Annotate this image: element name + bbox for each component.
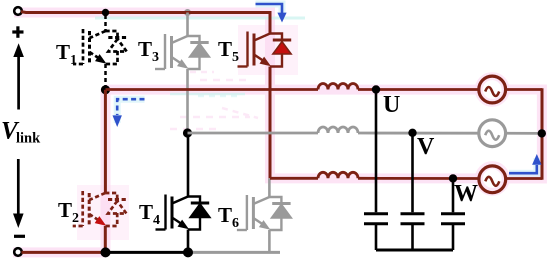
down arrow: [17, 159, 20, 215]
capacitor U: [364, 90, 388, 251]
node: bus star point: [538, 129, 546, 137]
capacitor V: [401, 133, 425, 250]
transistor T6 (gray IGBT): [237, 195, 291, 230]
wire: T3 collector lead (gray): [186, 13, 189, 37]
blue arrow top (current into T5): [256, 4, 287, 23]
glow around source U: [479, 76, 506, 103]
node: T4 at bottom rail: [183, 247, 193, 257]
DC+ terminal: [14, 7, 22, 15]
wire: T1 emitter lead (dashed): [104, 64, 107, 86]
AC source V: [479, 120, 506, 147]
wire: V phase line left segment: [188, 132, 319, 135]
wire: T1 collector lead (dashed): [104, 15, 107, 31]
capacitor common rail: [376, 249, 453, 252]
wire: T5 emitter down leg3 (maroon): [269, 67, 272, 179]
transistor T2 (dashed dark-red IGBT): [73, 191, 127, 226]
svg-text:T2: T2: [58, 198, 79, 226]
blue arrow bottom right (W current out): [509, 154, 542, 173]
svg-text:T6: T6: [218, 203, 239, 231]
transistor T4 (black IGBT): [156, 195, 210, 230]
transistor T1 (dashed black IGBT): [73, 29, 127, 64]
svg-text:V: V: [417, 134, 435, 160]
wire: T2 emitter to bottom rail (maroon): [104, 226, 107, 252]
top DC rail: [21, 12, 270, 34]
node above T3 (gray junction dot): [184, 9, 191, 16]
node above T1: [102, 9, 109, 16]
wire: T3 emitter to leg2 midpoint (gray): [186, 69, 189, 133]
AC source W: [479, 166, 506, 193]
inductor V: [318, 127, 358, 133]
minus sign: [14, 235, 25, 238]
inductor U: [318, 84, 358, 90]
svg-text:W: W: [454, 181, 478, 207]
wire: midpoint to T2 (maroon): [104, 90, 107, 193]
glow box around T5: [238, 25, 298, 75]
wire: leg2 midpoint to T4 (black): [187, 133, 190, 197]
svg-text:T1: T1: [56, 40, 77, 68]
up arrow: [17, 54, 20, 110]
wire: U phase line left segment: [106, 88, 319, 91]
bottom rail maroon segment: [22, 251, 106, 254]
wire: T6 emitter to bottom rail: [268, 230, 271, 252]
wire: T6 collector lead (gray): [268, 178, 271, 197]
wire: source V to bus (gray): [506, 132, 542, 135]
node: leg2 midpoint: [183, 128, 192, 137]
wire: U phase line right segment: [358, 88, 479, 91]
inductor W: [318, 172, 358, 178]
svg-text:T5: T5: [218, 37, 239, 65]
plus sign: [12, 26, 23, 38]
glow box around T2: [77, 185, 129, 240]
wire: source U to bus: [506, 88, 542, 91]
glow around source W: [479, 165, 506, 192]
artifact dashes: [170, 72, 258, 129]
capacitor W: [441, 178, 465, 250]
wire: source W to bus: [506, 177, 542, 180]
wire: W phase line left segment: [270, 177, 318, 180]
wire: V phase line right segment: [358, 132, 479, 135]
blue dashed arrow (leg1 current): [113, 99, 145, 127]
AC source U: [479, 76, 506, 103]
node: leg1 midpoint: [101, 85, 110, 94]
cyan fringe under U line: [170, 93, 245, 96]
svg-text:link: link: [16, 130, 41, 146]
svg-text:T4: T4: [139, 200, 160, 228]
svg-text:T3: T3: [138, 37, 159, 65]
transistor T5 (dark red IGBT, conducting): [238, 32, 292, 67]
node W: [449, 174, 457, 182]
node V: [408, 129, 416, 137]
node U: [372, 85, 380, 93]
wire: T4 emitter to bottom rail: [187, 230, 190, 253]
bottom rail black segment: [106, 251, 189, 254]
svg-text:U: U: [383, 92, 400, 118]
wire: W phase line right segment: [358, 177, 479, 180]
node: T2 at bottom rail: [101, 247, 111, 257]
bottom rail gray segment: [188, 251, 280, 254]
cyan fringe under top rail: [95, 17, 305, 20]
wire: right bus vertical: [541, 88, 544, 180]
DC- terminal: [14, 248, 22, 256]
transistor T3 (gray IGBT): [155, 34, 209, 69]
